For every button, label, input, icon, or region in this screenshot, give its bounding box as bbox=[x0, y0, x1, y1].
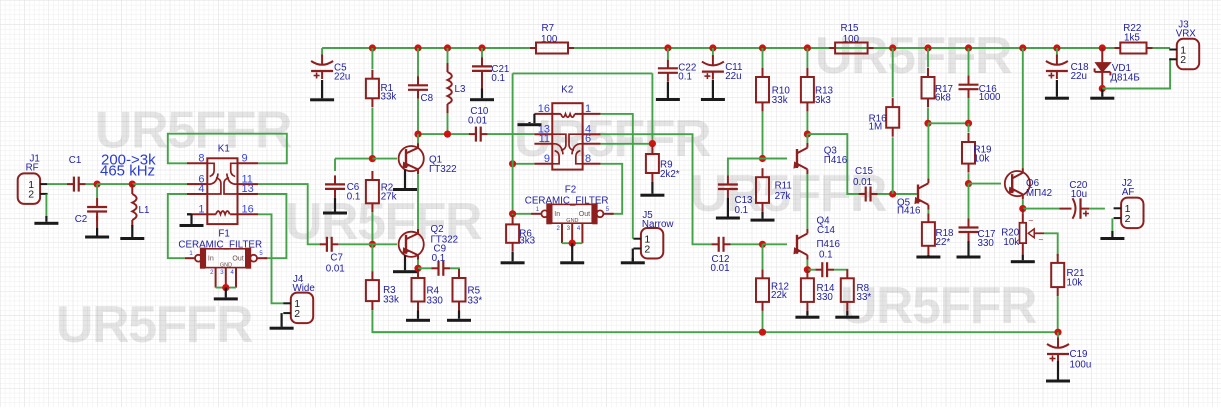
wire C13 branch bbox=[728, 159, 763, 177]
junction rail/L3 bbox=[444, 44, 451, 51]
svg-text:22u: 22u bbox=[334, 72, 350, 83]
wire K1 pin 16 to J4 pin 1 bbox=[258, 214, 283, 303]
wire C6 vertical bbox=[334, 159, 336, 171]
svg-text:2: 2 bbox=[644, 243, 650, 255]
resistor R8 33* bbox=[841, 269, 872, 311]
capacitor C10 0.01 bbox=[468, 106, 489, 142]
wire R1 bottom bbox=[371, 108, 373, 159]
junction Q2 emitter node bbox=[414, 265, 421, 272]
capacitor C16 1000 bbox=[959, 76, 1002, 103]
svg-text:4: 4 bbox=[198, 183, 204, 195]
junction rail/C11 bbox=[709, 44, 716, 51]
resistor R6 3k3 bbox=[506, 215, 536, 251]
resistor R4 330 bbox=[412, 269, 444, 311]
junction R19 bottom node bbox=[965, 180, 972, 187]
svg-text:C15: C15 bbox=[855, 166, 874, 177]
resistor R1 33k bbox=[366, 70, 396, 108]
ground below C2 bbox=[85, 228, 109, 239]
junction L3/tank bbox=[444, 131, 451, 138]
inductor L3 lead bbox=[447, 63, 449, 113]
ground below R14 bbox=[795, 311, 819, 319]
junction rail/R10 bbox=[759, 44, 766, 51]
relay K2 bbox=[534, 85, 600, 170]
wire C8 top bbox=[417, 48, 419, 77]
svg-text:L3: L3 bbox=[455, 84, 466, 95]
wire tank line C8-L3-C10 bbox=[418, 133, 470, 135]
junction Q6 emitter node bbox=[1019, 205, 1026, 212]
wire Q5 collector up bbox=[927, 123, 929, 178]
junction rail/C21 bbox=[478, 44, 485, 51]
transistor Q1 ГТ322 bbox=[399, 143, 457, 175]
svg-text:27k: 27k bbox=[381, 192, 397, 203]
wire R13 top bbox=[806, 48, 808, 68]
junction Q2 base node bbox=[369, 241, 376, 248]
junction F2 gnd bbox=[569, 240, 576, 247]
wire +V rail mid segment bbox=[574, 47, 1114, 49]
ceramic filter F2 bbox=[525, 184, 614, 243]
resistor R3 33k bbox=[366, 271, 399, 310]
ground below R8 bbox=[835, 311, 859, 319]
svg-text:~: ~ bbox=[1039, 236, 1044, 245]
svg-text:K1: K1 bbox=[218, 144, 230, 155]
capacitor C9 0.1 bbox=[432, 244, 451, 276]
ground below C18 bbox=[1045, 80, 1069, 100]
junction Q3 base node bbox=[759, 155, 766, 162]
wire Q3 collector up bbox=[806, 134, 808, 143]
svg-text:465 kHz: 465 kHz bbox=[100, 163, 155, 180]
junction rail/R16 bbox=[889, 44, 896, 51]
ground below C13 bbox=[716, 198, 740, 220]
wire Q1 collector up bbox=[417, 134, 419, 143]
ground below C5 bbox=[310, 80, 334, 101]
ground below R4 bbox=[406, 311, 430, 322]
wire R10 top bbox=[762, 48, 764, 68]
junction C8/collector bbox=[414, 131, 421, 138]
connector J3 VRX bbox=[1169, 20, 1199, 70]
svg-text:2: 2 bbox=[28, 189, 34, 201]
resistor R21 10k bbox=[1051, 254, 1084, 296]
wire F2 in node to R9... (R6 top) bbox=[512, 214, 514, 215]
wire C6 top to base line bbox=[335, 158, 372, 160]
wire Q3 emitter to Q4 collector bbox=[806, 174, 808, 229]
svg-text:Narrow: Narrow bbox=[642, 219, 674, 230]
wire C2 top bbox=[96, 184, 98, 198]
svg-text:33k: 33k bbox=[381, 92, 397, 103]
wire K2 pin 1 to J5 bbox=[601, 114, 633, 239]
wire Q2 emitter down bbox=[417, 260, 419, 269]
resistor R18 22* bbox=[922, 213, 954, 255]
connector J5 Narrow bbox=[633, 210, 674, 259]
ground below R5 bbox=[447, 311, 471, 322]
resistor R16 1M bbox=[869, 98, 900, 137]
zener diode VD1 Д814Б bbox=[1095, 48, 1140, 89]
svg-text:0.1: 0.1 bbox=[819, 250, 833, 261]
ground below C11 bbox=[701, 80, 725, 101]
label C10 name placeholder bbox=[0, 0, 1, 1]
transistor Q2 ГТ322 bbox=[399, 224, 459, 260]
ground below R18 bbox=[916, 255, 940, 259]
resistor R7 100 bbox=[530, 23, 574, 54]
svg-text:0.01: 0.01 bbox=[711, 263, 730, 274]
ground Q2 shield bbox=[393, 255, 417, 273]
svg-text:3k3: 3k3 bbox=[519, 235, 535, 246]
ground below R11 bbox=[751, 212, 775, 222]
wire C20 to J2 bbox=[1089, 208, 1105, 210]
Q5 label fix bbox=[0, 0, 1, 1]
wire R20 wiper to R21 bbox=[1044, 233, 1058, 256]
junction rail/R17 bbox=[924, 44, 931, 51]
junction Q1 base node bbox=[369, 155, 376, 162]
junction R9 node bbox=[649, 140, 656, 147]
svg-text:0.1: 0.1 bbox=[678, 72, 692, 83]
svg-text:RF: RF bbox=[26, 163, 39, 174]
wire K2 pin 4 to C12 column bbox=[601, 134, 712, 244]
svg-text:ГТ322: ГТ322 bbox=[429, 164, 457, 175]
label J1 texts fix bbox=[0, 0, 1, 1]
wire bottom rail bbox=[372, 331, 1058, 333]
wire C1 to junction bbox=[86, 183, 97, 185]
svg-text:МП42: МП42 bbox=[1026, 188, 1052, 199]
wire L3 bottom bbox=[447, 113, 449, 134]
svg-text:GND: GND bbox=[566, 218, 578, 224]
ground below J4 bbox=[270, 326, 294, 330]
svg-text:1: 1 bbox=[585, 103, 591, 115]
capacitor C22 0.1 bbox=[658, 59, 696, 82]
wire Q6 emitter down bbox=[1022, 199, 1024, 209]
resistor R22 1k5 bbox=[1114, 23, 1152, 54]
svg-text:33k: 33k bbox=[772, 95, 788, 106]
connector J2 AF bbox=[1114, 178, 1144, 228]
svg-text:0.1: 0.1 bbox=[432, 253, 446, 264]
wire R19 node to C17 bbox=[968, 184, 970, 219]
svg-text:VRX: VRX bbox=[1176, 29, 1197, 40]
wire R10 bottom bbox=[762, 111, 764, 158]
svg-text:8: 8 bbox=[198, 153, 204, 165]
ceramic filter F1 bbox=[178, 229, 267, 288]
wire C8 bottom bbox=[417, 99, 419, 134]
ground Q1 shield bbox=[393, 170, 417, 192]
capacitor C15 0.01 bbox=[853, 166, 878, 202]
svg-text:27k: 27k bbox=[775, 191, 791, 202]
C21 bottom lead bbox=[481, 75, 483, 89]
capacitor C1 bbox=[67, 155, 86, 192]
wire main line to L1 bbox=[97, 183, 132, 185]
wire F2 in column bbox=[512, 73, 514, 213]
wire R19 bottom bbox=[968, 173, 970, 183]
wire VD1 to J3 pin2 bbox=[1102, 58, 1170, 88]
ground below R9 bbox=[640, 182, 664, 197]
svg-text:33*: 33* bbox=[468, 296, 483, 307]
wire C21 top bbox=[481, 48, 483, 58]
capacitor C8 bbox=[408, 76, 434, 104]
svg-text:0.1: 0.1 bbox=[735, 205, 749, 216]
transistor Q4 П416 bbox=[791, 216, 840, 261]
svg-text:F2: F2 bbox=[565, 184, 576, 195]
capacitor C21 0.1 bbox=[472, 57, 509, 84]
wire C16 bottom bbox=[968, 98, 970, 123]
wire R21 bottom bbox=[1057, 296, 1059, 332]
wire pin6 column down bbox=[651, 73, 653, 143]
wire Q4 base line bbox=[763, 243, 788, 245]
inductor L1 bbox=[132, 194, 149, 220]
junction Q3 collector node bbox=[804, 131, 811, 138]
capacitor C18 22u bbox=[1046, 55, 1089, 83]
ground below VD1 bbox=[1090, 89, 1114, 100]
resistor R5 33* bbox=[453, 269, 483, 311]
wire R19 top bbox=[968, 123, 970, 132]
svg-text:C19: C19 bbox=[1070, 349, 1088, 360]
resistor R19 10k bbox=[962, 133, 991, 173]
ground below C6 bbox=[323, 198, 347, 215]
junction rail/Q6 collector bbox=[1019, 44, 1026, 51]
svg-text:8: 8 bbox=[585, 153, 591, 165]
svg-text:9: 9 bbox=[242, 153, 248, 165]
svg-text:Out: Out bbox=[232, 255, 243, 262]
svg-text:C7: C7 bbox=[330, 252, 343, 263]
svg-text:3k3: 3k3 bbox=[815, 95, 831, 106]
junction bottom rail/R21-C19 bbox=[1054, 329, 1061, 336]
svg-text:1k5: 1k5 bbox=[1124, 33, 1140, 44]
wire K2 pin 6 to R9 node bbox=[601, 143, 653, 145]
capacitor C13 0.1 bbox=[718, 176, 753, 217]
svg-text:R7: R7 bbox=[542, 23, 555, 34]
svg-text:16: 16 bbox=[242, 204, 254, 216]
wire Q6 base line bbox=[969, 183, 1002, 185]
wire C19 top bbox=[1057, 332, 1059, 341]
wire C12 to R12 node bbox=[731, 243, 763, 245]
wire R2 bottom bbox=[371, 213, 373, 245]
resistor R9 2k2* bbox=[646, 145, 680, 182]
junction rail/VD1 bbox=[1099, 44, 1106, 51]
wire K2 pin 8 down to F2 out bbox=[601, 164, 623, 214]
svg-text:100: 100 bbox=[541, 34, 558, 45]
ground K1 pin 1 bbox=[180, 214, 204, 227]
wire L3 top bbox=[447, 48, 449, 63]
ground below C17 bbox=[957, 241, 981, 259]
svg-text:1M: 1M bbox=[869, 122, 883, 133]
svg-text:R11: R11 bbox=[775, 181, 792, 192]
capacitor C12 0.01 bbox=[711, 237, 731, 274]
ground below C21 bbox=[470, 89, 494, 102]
inductor L3 bbox=[448, 72, 466, 104]
junction F1 gnd bbox=[222, 284, 229, 291]
resistor R14 330 bbox=[801, 269, 835, 311]
junction rail/C8 bbox=[414, 44, 421, 51]
svg-text:6: 6 bbox=[585, 133, 591, 145]
capacitor C17 330 bbox=[959, 219, 996, 249]
wire base line to Q1 bbox=[372, 158, 397, 160]
R16 label anchor fix bbox=[0, 0, 1, 1]
wire base line to Q2 bbox=[372, 243, 397, 245]
wire emitter to C20 bbox=[1023, 208, 1060, 210]
wire emitter to C14 bbox=[807, 269, 815, 271]
ground below F1 bbox=[214, 288, 238, 301]
wire K1 pin 13 to F1 out bbox=[258, 194, 286, 258]
junction C16/R19 node bbox=[965, 120, 972, 127]
svg-text:13: 13 bbox=[242, 183, 254, 195]
svg-text:6k8: 6k8 bbox=[935, 93, 951, 104]
svg-text:330: 330 bbox=[978, 238, 995, 249]
svg-text:L1: L1 bbox=[139, 205, 150, 216]
inductor L1 leads bbox=[131, 184, 133, 226]
svg-text:UR5FFR: UR5FFR bbox=[840, 277, 1037, 335]
resistor R15 100 bbox=[829, 23, 874, 54]
svg-text:UR5FFR: UR5FFR bbox=[56, 296, 253, 354]
svg-text:AF: AF bbox=[1122, 187, 1135, 198]
transistor Q5 П416 bbox=[897, 179, 928, 217]
svg-text:10k: 10k bbox=[1067, 278, 1083, 289]
ground K2 pin 16 bbox=[518, 122, 542, 126]
junction rail/R13 bbox=[804, 44, 811, 51]
svg-text:100u: 100u bbox=[1070, 360, 1092, 371]
wire J1 pin1 to C1 bbox=[48, 183, 67, 185]
junction Q4 emitter node bbox=[804, 266, 811, 273]
wire C18 top bbox=[1056, 48, 1058, 57]
svg-text:C8: C8 bbox=[421, 93, 434, 104]
svg-text:П416: П416 bbox=[824, 155, 848, 166]
wire K2 pin 9 to F2 in column bbox=[513, 163, 535, 165]
svg-text:33k: 33k bbox=[383, 295, 399, 306]
junction Q5 collector node bbox=[924, 120, 931, 127]
resistor R17 6k8 bbox=[922, 68, 953, 108]
wire C22 top bbox=[667, 48, 669, 59]
wire C15 to Q5 base bbox=[878, 193, 917, 195]
ground below J2 bbox=[1100, 231, 1124, 240]
svg-text:C14: C14 bbox=[817, 225, 836, 236]
svg-text:9: 9 bbox=[544, 153, 550, 165]
transistor Q6 МП42 bbox=[1005, 168, 1052, 199]
junction rail/R1 bbox=[369, 44, 376, 51]
capacitor C14 0.1 bbox=[815, 262, 834, 277]
junction Q5 base node bbox=[889, 190, 896, 197]
svg-text:16: 16 bbox=[538, 103, 550, 115]
K2 pin16 ground lead bbox=[533, 114, 535, 123]
wire R3 bottom to bottom rail bbox=[372, 310, 530, 332]
svg-text:22k: 22k bbox=[771, 290, 787, 301]
wire +V rail right segment to J3 pin 1 bbox=[1153, 47, 1171, 49]
svg-text:330: 330 bbox=[427, 296, 444, 307]
svg-text:In: In bbox=[554, 211, 560, 218]
wire C9 to R5 bbox=[450, 267, 459, 270]
wire R12 bottom bbox=[762, 311, 764, 332]
resistor R10 33k bbox=[756, 68, 790, 111]
K1 pin 1 to ground lead bbox=[187, 213, 192, 215]
ground below C22 bbox=[656, 82, 680, 101]
ground below C19 bbox=[1046, 361, 1070, 383]
svg-text:C1: C1 bbox=[69, 155, 82, 166]
wire +V rail left segment bbox=[322, 47, 530, 49]
svg-text:GND: GND bbox=[220, 262, 232, 268]
svg-text:11: 11 bbox=[539, 133, 550, 145]
transistor Q3 П416 bbox=[791, 143, 847, 174]
svg-text:1: 1 bbox=[198, 204, 204, 216]
wire R12 top bbox=[762, 244, 764, 269]
ground below J1 bbox=[34, 216, 58, 225]
wire emitter to C9 bbox=[418, 267, 432, 269]
resistor R11 27k bbox=[756, 168, 792, 212]
svg-text:10u: 10u bbox=[1071, 189, 1087, 200]
wire bridge 73 line bbox=[513, 72, 653, 74]
junction C1/C2 node bbox=[94, 181, 101, 188]
ground below J5 bbox=[621, 258, 645, 264]
ground below R20 bbox=[1011, 255, 1035, 264]
svg-text:33*: 33* bbox=[857, 292, 872, 303]
capacitor C6 0.1 bbox=[325, 175, 360, 202]
ground below F2 bbox=[560, 243, 584, 264]
svg-text:П416: П416 bbox=[897, 206, 921, 217]
capacitor C2 bbox=[75, 198, 107, 225]
wire main line to K1 pin 6 bbox=[132, 183, 207, 185]
wire F2 in lead bbox=[513, 213, 532, 215]
ground below R6 bbox=[501, 252, 525, 264]
wire R16 bottom bbox=[892, 137, 894, 194]
junction L1 node bbox=[129, 181, 136, 188]
resistor R13 3k3 bbox=[801, 68, 834, 111]
svg-text:In: In bbox=[208, 255, 214, 262]
wire R1 top bbox=[371, 48, 373, 69]
watermark UR5FFR bbox=[56, 27, 1037, 354]
wire Q1 emitter to Q2 collector bbox=[417, 174, 419, 229]
wire C5 top from rail bbox=[321, 48, 323, 57]
junction pin9/column bbox=[509, 160, 516, 167]
svg-text:2: 2 bbox=[294, 308, 300, 320]
annotation 200->3k 465 kHz bbox=[100, 152, 156, 180]
wire R17 top bbox=[927, 48, 929, 68]
svg-text:0.01: 0.01 bbox=[853, 177, 872, 188]
wire C7 to base node bbox=[339, 243, 372, 245]
resistor R12 22k bbox=[756, 269, 789, 311]
svg-text:C2: C2 bbox=[75, 214, 88, 225]
wire J2 pin2 down bbox=[1111, 218, 1113, 232]
capacitor C5 22u bbox=[311, 55, 350, 83]
junction rail/C22 bbox=[664, 44, 671, 51]
wire Q3 base line bbox=[763, 158, 788, 160]
svg-text:R15: R15 bbox=[841, 23, 860, 34]
connector J4 Wide bbox=[283, 274, 315, 323]
svg-text:2: 2 bbox=[1180, 54, 1186, 66]
junction F2 in node bbox=[509, 210, 516, 217]
capacitor C19 100u bbox=[1047, 338, 1091, 371]
svg-text:10k: 10k bbox=[1003, 237, 1019, 248]
junction rail/C16 bbox=[965, 44, 972, 51]
svg-text:1000: 1000 bbox=[979, 92, 1001, 103]
wire C10 to K2 pin 13 bbox=[488, 133, 535, 135]
svg-text:Д814Б: Д814Б bbox=[1110, 73, 1139, 84]
svg-text:10k: 10k bbox=[974, 154, 990, 165]
wire C14 to R8 bbox=[834, 269, 847, 271]
wire collector link bbox=[928, 122, 969, 124]
resistor R2 27k bbox=[366, 171, 397, 212]
wire R16 top bbox=[892, 48, 894, 98]
potentiometer R20 10k bbox=[1001, 209, 1044, 255]
capacitor C20 10u bbox=[1060, 180, 1090, 219]
capacitor C11 22u bbox=[702, 55, 743, 82]
svg-text:0.1: 0.1 bbox=[347, 191, 361, 202]
svg-text:22*: 22* bbox=[936, 237, 951, 248]
J4 pin2 down bbox=[281, 313, 283, 327]
relay K1 bbox=[187, 144, 258, 225]
wire R17 bottom bbox=[927, 108, 929, 123]
junction VD1 anode node bbox=[1099, 85, 1106, 92]
ground below L1 bbox=[120, 225, 144, 240]
wire C11 top bbox=[712, 48, 714, 57]
svg-text:П416: П416 bbox=[817, 239, 841, 250]
wire C16 top bbox=[968, 48, 970, 76]
wire R13 bottom bbox=[806, 111, 808, 134]
svg-text:22u: 22u bbox=[725, 71, 741, 82]
svg-text:2k2*: 2k2* bbox=[660, 169, 680, 180]
wire R3 top bbox=[371, 244, 373, 271]
